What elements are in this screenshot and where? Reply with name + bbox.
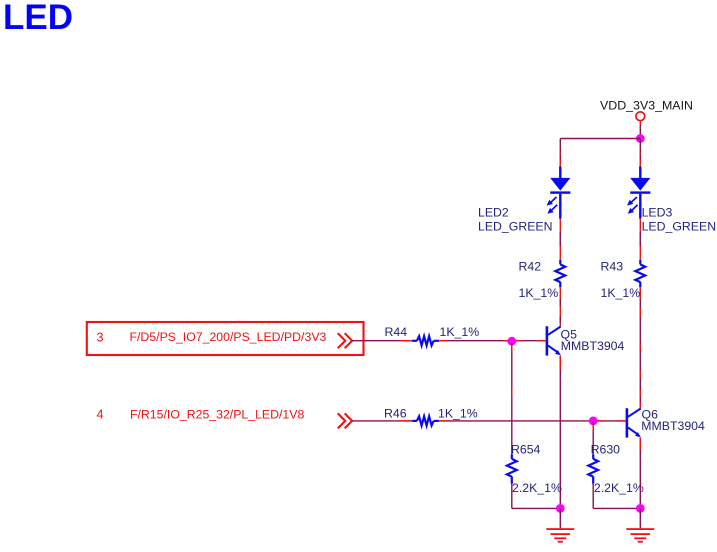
resistor R42: [555, 260, 565, 288]
junction power rail: [636, 134, 645, 143]
svg-text:LED_GREEN: LED_GREEN: [642, 220, 717, 234]
junction R44 / R654 / Q5 base: [507, 337, 516, 346]
svg-text:2.2K_1%: 2.2K_1%: [512, 481, 562, 495]
svg-text:LED3: LED3: [642, 206, 673, 220]
transistor Q6: [626, 408, 641, 437]
wire Q5 emitter down: [559, 356, 561, 509]
junction R46 / R630 / Q6 base: [589, 417, 598, 426]
wire port4 to R46: [352, 420, 412, 422]
wire right rail above LED3: [639, 139, 641, 167]
wire R43 to Q6 collector: [639, 287, 641, 408]
resistor R654: [507, 454, 517, 484]
ground symbol right: [626, 528, 654, 542]
wire Q6 emitter down: [639, 438, 641, 509]
svg-text:1K_1%: 1K_1%: [601, 286, 641, 300]
wire R44 to Q5 base: [439, 340, 546, 342]
svg-text:F/D5/PS_IO7_200/PS_LED/PD/3V3: F/D5/PS_IO7_200/PS_LED/PD/3V3: [130, 330, 327, 344]
svg-text:3: 3: [97, 330, 104, 344]
svg-text:1K_1%: 1K_1%: [440, 325, 480, 339]
svg-text:R43: R43: [601, 260, 624, 274]
wire R654 bottom to ground junction: [512, 484, 561, 509]
ground symbol left: [546, 528, 574, 542]
wire R42 to Q5 collector: [559, 287, 561, 326]
svg-text:LED: LED: [3, 0, 73, 37]
port 4 chevron: [338, 413, 352, 428]
wire LED3 cathode to R43: [639, 219, 641, 260]
svg-text:VDD_3V3_MAIN: VDD_3V3_MAIN: [600, 99, 693, 113]
svg-text:LED_GREEN: LED_GREEN: [478, 220, 553, 234]
wire left rail above LED2: [559, 139, 561, 167]
svg-text:R44: R44: [385, 325, 408, 339]
svg-text:MMBT3904: MMBT3904: [561, 339, 625, 353]
junction ground left: [556, 504, 565, 513]
LED LED3: [627, 167, 650, 219]
wire R630 bottom to ground junction: [593, 484, 640, 509]
wire R630 branch down: [592, 421, 594, 454]
svg-text:R630: R630: [591, 443, 621, 457]
resistor R43: [635, 260, 645, 288]
svg-text:R46: R46: [384, 406, 407, 420]
wire LED2 cathode to R42: [559, 219, 561, 260]
wire R654 branch down: [511, 341, 513, 454]
svg-text:R654: R654: [511, 443, 541, 457]
svg-text:F/R15/IO_R25_32/PL_LED/1V8: F/R15/IO_R25_32/PL_LED/1V8: [130, 407, 304, 421]
wire power stub to junction: [639, 126, 641, 139]
wire to ground symbol left: [559, 508, 561, 528]
wire top horizontal rail: [560, 138, 640, 140]
port 3 box: [87, 322, 364, 355]
wire to ground symbol right: [639, 508, 641, 528]
svg-text:R42: R42: [519, 260, 542, 274]
resistor R46: [412, 416, 439, 425]
transistor Q5: [546, 326, 561, 355]
power symbol VDD_3V3_MAIN: [636, 112, 645, 126]
resistor R44: [412, 336, 439, 345]
svg-text:1K_1%: 1K_1%: [438, 406, 478, 420]
wire R46 to Q6 base: [439, 420, 626, 422]
port 3 chevron: [338, 333, 352, 348]
svg-text:MMBT3904: MMBT3904: [641, 419, 705, 433]
svg-text:4: 4: [97, 408, 104, 422]
svg-text:2.2K_1%: 2.2K_1%: [594, 481, 644, 495]
svg-text:LED2: LED2: [478, 206, 509, 220]
wire port3 to R44: [352, 340, 412, 342]
resistor R630: [588, 454, 598, 484]
LED LED2: [547, 167, 571, 219]
junction ground right: [636, 504, 645, 513]
svg-text:1K_1%: 1K_1%: [519, 286, 559, 300]
